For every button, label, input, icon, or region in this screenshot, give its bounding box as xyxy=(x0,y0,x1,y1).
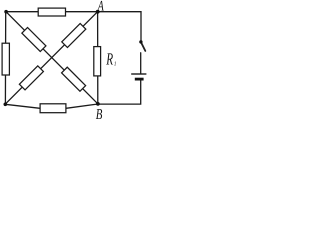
resistor diagonal lower-right xyxy=(62,67,86,91)
svg-text:R: R xyxy=(106,50,114,69)
wire diagonal BL to A xyxy=(5,12,97,105)
resistor diagonal upper-left xyxy=(22,27,46,51)
wire bottom BL to box to B xyxy=(5,104,98,108)
svg-text:B: B xyxy=(96,107,103,123)
svg-text:1: 1 xyxy=(114,61,117,67)
switch pivot dot xyxy=(139,40,142,43)
wire top TL to A to top-right corner xyxy=(6,11,141,13)
resistor left xyxy=(2,43,9,75)
battery short thick plate xyxy=(135,78,144,81)
wire right branch verticals and bottom xyxy=(140,12,142,41)
switch S blade xyxy=(141,42,146,51)
node TL xyxy=(4,10,8,14)
resistor bottom xyxy=(40,104,66,113)
node A xyxy=(96,10,100,14)
resistor diagonal upper-right xyxy=(62,23,86,47)
wire left side TL to BL xyxy=(4,12,6,105)
wire middle vertical A to B xyxy=(97,12,99,104)
resistor R1 xyxy=(94,47,101,76)
node B xyxy=(96,102,100,106)
wire diagonal TL to B xyxy=(6,12,98,104)
resistor diagonal lower-left xyxy=(19,66,43,90)
svg-text:A: A xyxy=(97,0,104,14)
node BL xyxy=(4,103,8,107)
battery long plate xyxy=(131,73,146,75)
resistor top xyxy=(38,8,65,16)
